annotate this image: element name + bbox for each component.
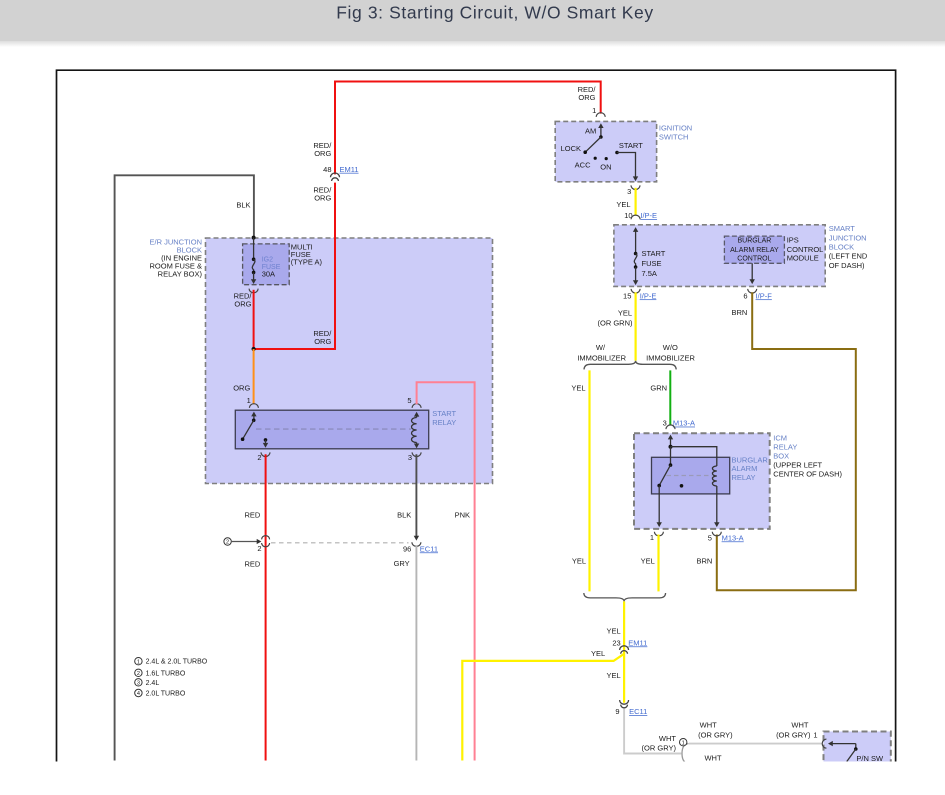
wire YEL w/immobilizer branch xyxy=(588,370,590,591)
legend circled 1 xyxy=(135,658,142,665)
svg-text:ORG: ORG xyxy=(233,384,250,393)
svg-text:YEL: YEL xyxy=(607,627,621,636)
svg-text:JUNCTION: JUNCTION xyxy=(829,233,867,242)
svg-text:GRY: GRY xyxy=(394,559,410,568)
svg-text:2.4L & 2.0L TURBO: 2.4L & 2.0L TURBO xyxy=(146,659,208,666)
svg-text:2.0L TURBO: 2.0L TURBO xyxy=(146,691,186,698)
svg-text:ORG: ORG xyxy=(234,299,251,308)
svg-text:IMMOBILIZER: IMMOBILIZER xyxy=(646,354,695,363)
start relay box xyxy=(235,410,428,449)
svg-text:1: 1 xyxy=(247,396,251,405)
pin 5 M13-A connector below ICM xyxy=(712,532,721,536)
wire PNK from pin 5 xyxy=(417,382,475,760)
svg-text:7.5A: 7.5A xyxy=(642,269,657,278)
pin 2 connector arc xyxy=(261,452,270,456)
svg-text:BURGLAR: BURGLAR xyxy=(732,456,769,465)
svg-text:START: START xyxy=(642,249,666,258)
svg-text:RELAY: RELAY xyxy=(732,473,756,482)
svg-text:1: 1 xyxy=(682,740,685,746)
wire YEL branch west xyxy=(462,654,624,761)
circled option 2 with arrow xyxy=(224,538,231,545)
svg-text:ICM: ICM xyxy=(773,433,787,442)
svg-text:YEL: YEL xyxy=(571,383,585,392)
svg-text:2: 2 xyxy=(257,544,261,553)
svg-text:SMART: SMART xyxy=(829,224,856,233)
fuse IG2 internal element xyxy=(253,238,255,260)
svg-text:Fig 3: Starting Circuit, W/O S: Fig 3: Starting Circuit, W/O Smart Key xyxy=(336,2,653,22)
svg-text:ORG: ORG xyxy=(578,93,595,102)
wire RED from pin 2 xyxy=(265,454,267,760)
svg-text:BOX: BOX xyxy=(773,452,789,461)
svg-text:3: 3 xyxy=(408,453,412,462)
pin 1 connector below ICM xyxy=(654,532,663,536)
wire YEL from pin 15 to split xyxy=(634,292,636,360)
svg-text:IPS: IPS xyxy=(787,235,799,244)
legend circled 2 xyxy=(135,669,142,676)
svg-text:(OR GRN): (OR GRN) xyxy=(598,318,633,327)
svg-text:30A: 30A xyxy=(262,269,275,278)
svg-text:48: 48 xyxy=(323,165,331,174)
svg-text:GRN: GRN xyxy=(650,383,667,392)
svg-text:(UPPER LEFT: (UPPER LEFT xyxy=(773,460,822,469)
ICM internal wiring xyxy=(670,439,672,447)
wire WHT to P/N SW xyxy=(689,743,822,745)
connector EC11 96 arc xyxy=(412,542,421,546)
svg-text:YEL: YEL xyxy=(572,556,586,565)
svg-text:I/P-E: I/P-E xyxy=(640,211,657,220)
svg-text:WHT: WHT xyxy=(700,720,717,729)
start relay coil internals xyxy=(416,416,418,444)
svg-text:IMMOBILIZER: IMMOBILIZER xyxy=(577,354,626,363)
svg-text:RELAY: RELAY xyxy=(773,443,797,452)
svg-text:BURGLAR: BURGLAR xyxy=(737,237,771,244)
ICM relay box outline xyxy=(634,433,770,529)
pin 6 I/P-F connector xyxy=(748,289,757,293)
connector arcs on red wire xyxy=(262,536,270,540)
svg-text:ON: ON xyxy=(600,163,611,172)
svg-text:LOCK: LOCK xyxy=(561,144,581,153)
title bar xyxy=(0,0,945,41)
svg-text:YEL: YEL xyxy=(641,556,655,565)
connector EM11 top double arcs xyxy=(331,173,340,177)
wire YEL merged down xyxy=(623,601,625,702)
node junction dot on E/R border xyxy=(252,236,256,240)
svg-text:BLOCK: BLOCK xyxy=(829,242,854,251)
node junction dot red/org xyxy=(252,347,256,351)
wire YEL from ICM pin 1 xyxy=(657,535,659,592)
svg-text:1: 1 xyxy=(650,533,654,542)
mechanical link dashed burglar relay xyxy=(667,475,713,477)
mechanical link dashed xyxy=(256,428,411,430)
ignition switch box xyxy=(555,121,656,181)
svg-text:RED: RED xyxy=(244,560,260,569)
svg-text:2.4L: 2.4L xyxy=(146,680,160,687)
svg-text:EC11: EC11 xyxy=(420,544,438,553)
svg-text:(OR GRY): (OR GRY) xyxy=(642,743,677,752)
dashed option wire xyxy=(271,542,409,544)
svg-text:EC11: EC11 xyxy=(629,707,647,716)
svg-text:MODULE: MODULE xyxy=(787,254,819,263)
svg-text:3: 3 xyxy=(627,187,631,196)
svg-text:BRN: BRN xyxy=(696,556,712,565)
svg-text:RED: RED xyxy=(244,511,260,520)
svg-text:FUSE: FUSE xyxy=(642,259,662,268)
svg-text:1: 1 xyxy=(137,659,140,665)
svg-text:YEL: YEL xyxy=(616,200,630,209)
svg-text:WHT: WHT xyxy=(659,734,676,743)
svg-text:CONTROL: CONTROL xyxy=(737,256,771,263)
svg-text:P/N SW: P/N SW xyxy=(856,754,884,763)
svg-text:YEL: YEL xyxy=(618,308,632,317)
wire BLK from ground side to IG2 fuse xyxy=(115,175,254,760)
svg-text:15: 15 xyxy=(623,291,631,300)
svg-text:3: 3 xyxy=(137,680,140,686)
svg-text:W/: W/ xyxy=(596,343,606,352)
svg-text:4: 4 xyxy=(137,691,140,697)
svg-text:BRN: BRN xyxy=(731,308,747,317)
wire WHT from EC11 xyxy=(624,709,681,754)
wire RED fuse output xyxy=(253,290,255,349)
svg-text:5: 5 xyxy=(708,533,712,542)
svg-text:1: 1 xyxy=(813,730,817,739)
wire GRY down xyxy=(415,546,417,761)
svg-text:IGNITION: IGNITION xyxy=(659,124,692,133)
svg-text:I/P-E: I/P-E xyxy=(640,291,657,300)
svg-text:BLK: BLK xyxy=(397,511,411,520)
P/N SW internals xyxy=(832,743,856,745)
connector EC11 bottom double arcs xyxy=(620,700,629,704)
svg-text:(OR GRY): (OR GRY) xyxy=(698,730,733,739)
svg-text:5: 5 xyxy=(407,396,411,405)
svg-text:ORG: ORG xyxy=(314,337,331,346)
svg-text:2: 2 xyxy=(257,453,261,462)
svg-text:YEL: YEL xyxy=(591,649,605,658)
E/R junction block box xyxy=(206,238,493,484)
svg-text:(LEFT END: (LEFT END xyxy=(829,252,868,261)
wire GRN w/o immobilizer branch xyxy=(669,370,671,425)
svg-text:96: 96 xyxy=(403,544,411,553)
burglar alarm relay box xyxy=(652,457,730,494)
svg-text:2: 2 xyxy=(226,540,229,546)
pin 3 connector arc xyxy=(412,452,421,456)
svg-text:W/O: W/O xyxy=(663,343,678,352)
svg-text:3: 3 xyxy=(663,419,667,428)
svg-text:PNK: PNK xyxy=(455,511,470,520)
svg-text:M13-A: M13-A xyxy=(722,533,744,542)
P/N SW connector arc xyxy=(822,739,826,748)
wire ORG to start relay pin 1 xyxy=(253,349,255,404)
option split curve xyxy=(682,744,689,764)
svg-text:START: START xyxy=(432,409,456,418)
svg-text:M13-A: M13-A xyxy=(673,419,695,428)
svg-text:(OR GRY): (OR GRY) xyxy=(776,730,811,739)
pin 15 I/P-E connector xyxy=(631,289,640,293)
svg-text:EM11: EM11 xyxy=(628,638,647,647)
svg-text:SWITCH: SWITCH xyxy=(659,132,689,141)
svg-text:AM: AM xyxy=(585,127,596,136)
svg-text:IG2: IG2 xyxy=(262,257,273,264)
P/N SW box xyxy=(824,732,891,774)
svg-text:1.6L TURBO: 1.6L TURBO xyxy=(146,670,186,677)
svg-text:WHT: WHT xyxy=(791,720,808,729)
svg-text:ALARM: ALARM xyxy=(732,464,758,473)
svg-text:WHT: WHT xyxy=(704,754,721,763)
wire BRN from pin 6 xyxy=(717,292,856,590)
svg-text:ORG: ORG xyxy=(314,149,331,158)
svg-text:CENTER OF DASH): CENTER OF DASH) xyxy=(773,470,842,479)
svg-text:ACC: ACC xyxy=(575,160,591,169)
legend circled 3 xyxy=(135,679,142,686)
svg-text:EM11: EM11 xyxy=(340,165,359,174)
IG2 fuse box xyxy=(243,244,290,285)
svg-text:BLK: BLK xyxy=(236,200,250,209)
svg-text:I/P-F: I/P-F xyxy=(756,291,773,300)
pin 3 connector arc xyxy=(631,185,640,189)
svg-text:OF DASH): OF DASH) xyxy=(829,261,865,270)
svg-text:6: 6 xyxy=(743,291,747,300)
svg-text:RELAY BOX): RELAY BOX) xyxy=(158,269,203,278)
wire RED/ORG from EM11 down and to ignition switch xyxy=(335,82,601,175)
IPS control module box xyxy=(724,236,784,263)
ignition switch internals xyxy=(600,127,602,137)
circled option 1 xyxy=(680,739,687,746)
diagram border frame xyxy=(57,70,896,761)
merge brace symbol xyxy=(584,593,666,601)
wire BLK from pin 3 xyxy=(415,454,417,536)
IPS output line to pin 6 xyxy=(751,263,753,279)
start relay switch internals xyxy=(253,416,255,421)
svg-text:ORG: ORG xyxy=(314,193,331,202)
wire YEL ignition to SJB xyxy=(634,188,636,216)
svg-text:9: 9 xyxy=(615,707,619,716)
svg-text:START: START xyxy=(619,141,643,150)
SJB start fuse internals xyxy=(635,231,637,253)
legend circled 4 xyxy=(135,689,142,696)
svg-text:(TYPE A): (TYPE A) xyxy=(291,258,323,267)
split brace symbol xyxy=(584,361,676,370)
pin connector arc below IG2 fuse xyxy=(249,289,258,293)
svg-text:ALARM RELAY: ALARM RELAY xyxy=(730,247,779,254)
svg-text:RELAY: RELAY xyxy=(432,418,456,427)
svg-text:1: 1 xyxy=(592,106,596,115)
svg-text:YEL: YEL xyxy=(607,671,621,680)
svg-text:2: 2 xyxy=(137,671,140,677)
svg-text:23: 23 xyxy=(612,638,620,647)
smart junction block box xyxy=(614,225,825,287)
